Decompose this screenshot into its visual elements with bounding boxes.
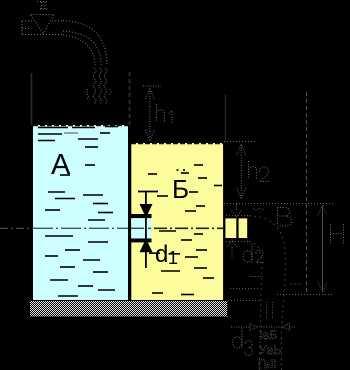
H dimension — [318, 205, 327, 293]
small wave marks — [253, 208, 265, 210]
d2 lower arrow (ghost) — [228, 240, 237, 258]
label H (ghost) — [331, 224, 344, 244]
svg-text:А: А — [51, 149, 71, 181]
label h1 (ghost) — [157, 104, 173, 124]
d1 shaft through orifice — [145, 217, 147, 240]
tank A left wall (above water, ghost) — [31, 73, 33, 125]
centerline (axis) — [0, 227, 223, 229]
h1 dimension — [143, 86, 161, 141]
faucet handle — [37, 2, 49, 10]
tank B right wall (above liquid, ghost) — [225, 95, 227, 144]
label h2 (ghost) — [249, 161, 270, 182]
d3 dimension — [231, 324, 296, 331]
watermark ghost text rows in jet — [258, 328, 281, 370]
h2 dimension — [237, 144, 246, 199]
svg-text:іаБ: іаБ — [260, 328, 277, 342]
water streams from faucet — [87, 68, 112, 104]
svg-text:УаЬ: УаЬ — [259, 343, 281, 357]
ripples tank B — [148, 165, 222, 295]
divider wall between tanks — [128, 125, 131, 214]
nozzle on right wall — [225, 216, 248, 242]
tank B liquid — [131, 143, 223, 300]
base (hatched ground) — [30, 301, 227, 317]
jet bottom boundary — [249, 242, 262, 370]
label V (В) ghost — [278, 208, 292, 227]
svg-text:Б: Б — [172, 174, 189, 204]
faucet spout — [63, 21, 107, 67]
jet top boundary — [249, 216, 285, 370]
label d3 (ghost) — [233, 329, 252, 356]
tank B right wall — [223, 143, 226, 300]
gray ripple dashes tank A — [64, 132, 78, 134]
dotted line near base level — [230, 288, 259, 290]
divider wall (above water, ghost) — [129, 72, 131, 125]
svg-text:ГьІі: ГьІі — [258, 357, 276, 370]
small tick — [290, 283, 302, 285]
tank A water — [33, 125, 128, 300]
orifice spout water — [131, 218, 151, 238]
ripples tank A — [38, 127, 118, 297]
dashed vertical reference line — [306, 92, 308, 294]
label d2 (ghost) — [243, 244, 264, 263]
faucet pipe — [22, 21, 64, 35]
bottom reference line — [277, 294, 334, 296]
faucet valve body — [31, 15, 54, 35]
svg-text:1: 1 — [168, 248, 178, 268]
d2 upper arrow (ghost) — [232, 204, 242, 217]
orifice spout flanges — [128, 214, 152, 218]
base ghost outline right — [228, 300, 261, 302]
d1 upper arrow — [138, 192, 158, 218]
d1 lower arrow — [140, 239, 153, 268]
tank A surface line — [33, 125, 128, 127]
svg-text:d: d — [155, 241, 168, 268]
reference line y203 — [224, 203, 333, 205]
B-surface extension line — [224, 141, 257, 143]
tank B surface line — [131, 143, 223, 145]
jet inner lines — [266, 302, 268, 318]
